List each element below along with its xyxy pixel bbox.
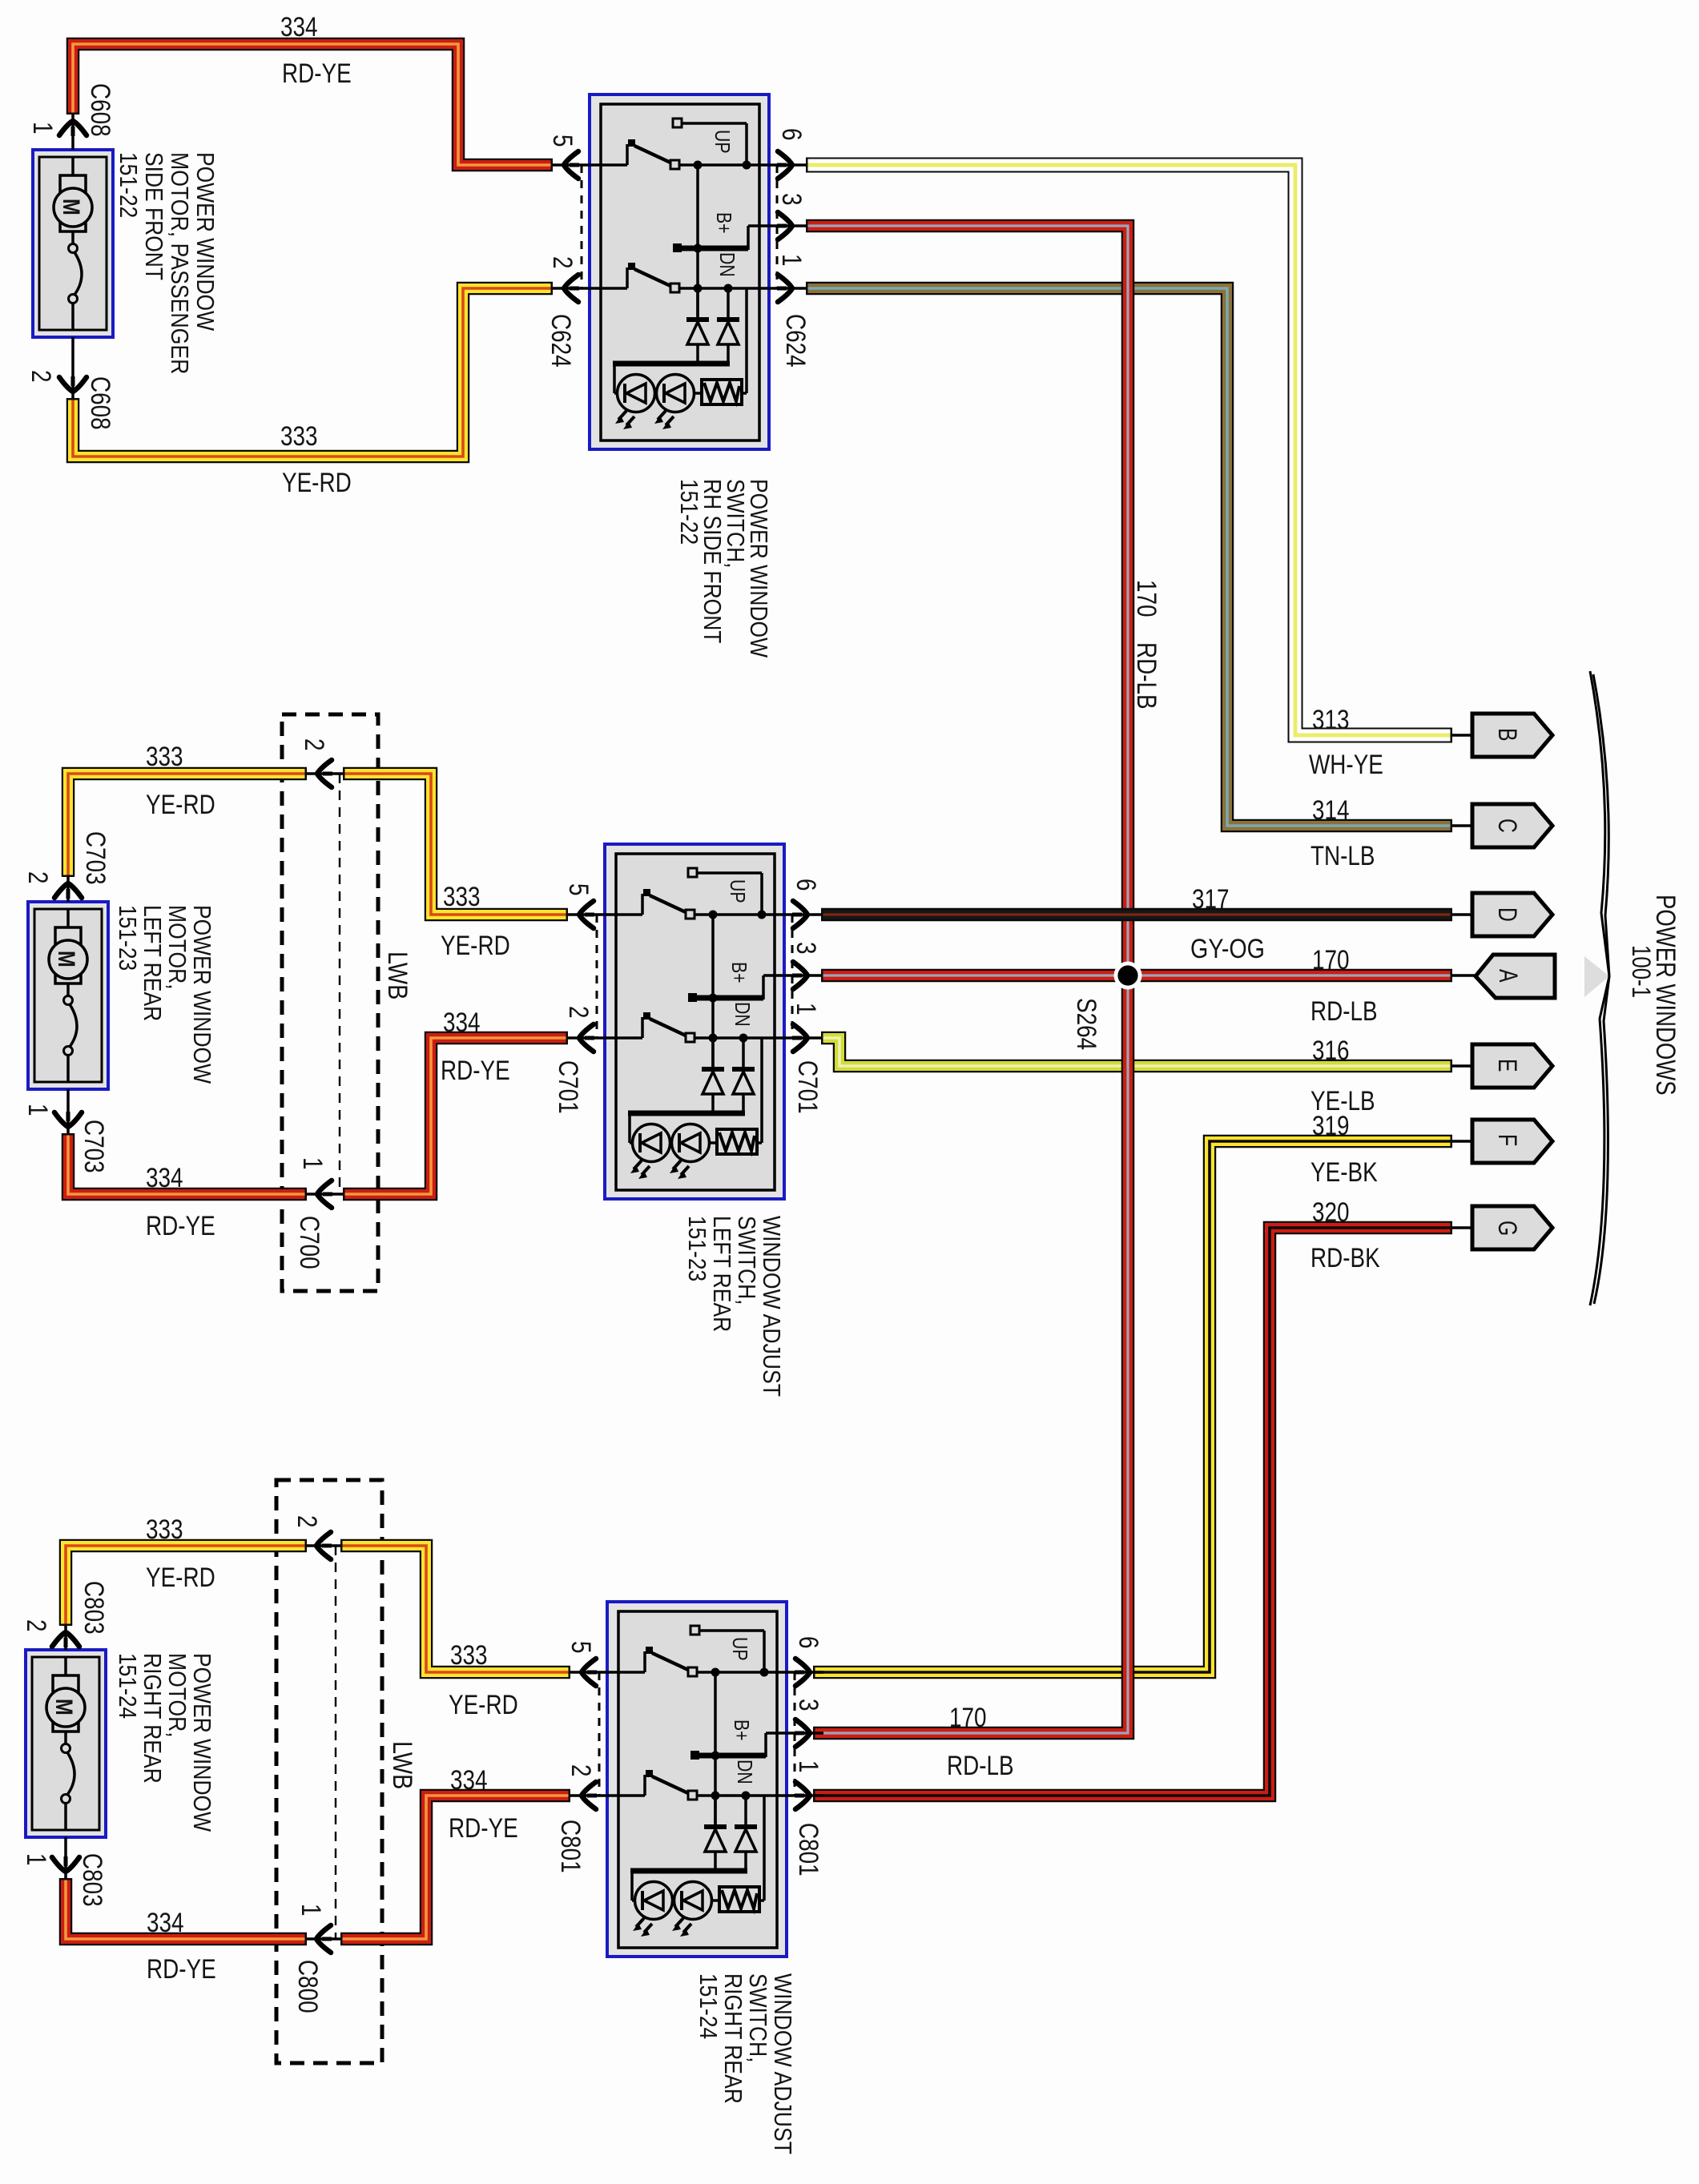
svg-text:YE-RD: YE-RD <box>449 1690 518 1720</box>
svg-text:C701: C701 <box>792 1060 823 1114</box>
svg-text:TN-LB: TN-LB <box>1310 841 1375 871</box>
svg-text:2: 2 <box>292 1515 322 1528</box>
svg-text:C: C <box>1493 818 1522 833</box>
svg-text:316: 316 <box>1312 1036 1350 1066</box>
svg-text:151-24: 151-24 <box>114 1653 142 1719</box>
svg-text:RD-LB: RD-LB <box>1310 996 1378 1027</box>
svg-text:334: 334 <box>450 1765 488 1796</box>
svg-text:SWITCH,: SWITCH, <box>744 1973 772 2063</box>
svg-text:5: 5 <box>563 883 594 896</box>
svg-text:6: 6 <box>791 879 821 891</box>
svg-text:1: 1 <box>791 1003 821 1016</box>
svg-text:RD-LB: RD-LB <box>947 1751 1014 1781</box>
svg-text:151-23: 151-23 <box>114 905 142 971</box>
svg-text:151-22: 151-22 <box>675 479 703 545</box>
svg-text:333: 333 <box>443 882 481 912</box>
svg-text:170: 170 <box>1131 580 1162 617</box>
svg-text:100-1: 100-1 <box>1627 945 1656 998</box>
svg-text:RIGHT REAR: RIGHT REAR <box>139 1653 167 1784</box>
svg-text:RD-YE: RD-YE <box>147 1954 216 1985</box>
svg-text:1: 1 <box>22 1104 53 1116</box>
svg-text:334: 334 <box>280 12 318 42</box>
svg-text:C624: C624 <box>780 314 811 368</box>
svg-text:WINDOW ADJUST: WINDOW ADJUST <box>758 1216 786 1397</box>
svg-text:2: 2 <box>566 1764 596 1777</box>
svg-text:333: 333 <box>280 421 318 452</box>
svg-text:C703: C703 <box>79 1120 109 1173</box>
svg-text:2: 2 <box>22 871 53 884</box>
svg-text:C703: C703 <box>80 831 111 885</box>
svg-text:C803: C803 <box>79 1581 109 1635</box>
svg-text:170: 170 <box>949 1703 987 1733</box>
svg-text:RD-BK: RD-BK <box>1310 1243 1380 1273</box>
svg-text:D: D <box>1493 907 1522 922</box>
svg-text:F: F <box>1493 1134 1522 1146</box>
svg-text:G: G <box>1493 1221 1522 1236</box>
svg-text:2: 2 <box>299 738 329 751</box>
svg-text:MOTOR, PASSENGER: MOTOR, PASSENGER <box>166 152 194 374</box>
svg-text:151-24: 151-24 <box>694 1973 723 2039</box>
svg-text:C700: C700 <box>294 1216 324 1269</box>
svg-text:6: 6 <box>793 1636 823 1649</box>
svg-text:1: 1 <box>296 1904 326 1917</box>
svg-text:5: 5 <box>547 135 578 147</box>
svg-text:333: 333 <box>146 1514 183 1545</box>
svg-text:C803: C803 <box>77 1853 107 1907</box>
svg-text:2: 2 <box>21 1619 51 1632</box>
svg-text:RIGHT REAR: RIGHT REAR <box>719 1973 747 2104</box>
svg-text:POWER WINDOW: POWER WINDOW <box>188 1653 216 1832</box>
svg-text:151-22: 151-22 <box>115 152 143 218</box>
svg-text:LWB: LWB <box>382 951 413 999</box>
svg-text:C801: C801 <box>793 1823 823 1876</box>
svg-text:1: 1 <box>27 122 58 135</box>
svg-text:A: A <box>1494 969 1523 983</box>
svg-text:2: 2 <box>26 370 56 383</box>
svg-text:170: 170 <box>1312 945 1350 975</box>
svg-text:S264: S264 <box>1071 998 1101 1050</box>
svg-text:POWER WINDOW: POWER WINDOW <box>191 152 219 332</box>
svg-text:GY-OG: GY-OG <box>1190 934 1265 964</box>
svg-text:RD-YE: RD-YE <box>441 1056 510 1086</box>
svg-text:RD-YE: RD-YE <box>449 1813 518 1844</box>
svg-text:314: 314 <box>1312 795 1350 826</box>
svg-text:E: E <box>1493 1059 1522 1072</box>
svg-text:334: 334 <box>147 1908 184 1938</box>
svg-text:RD-LB: RD-LB <box>1131 642 1162 710</box>
svg-text:313: 313 <box>1312 705 1350 735</box>
svg-text:6: 6 <box>776 128 807 141</box>
svg-text:YE-RD: YE-RD <box>146 790 215 820</box>
svg-text:YE-BK: YE-BK <box>1310 1157 1378 1188</box>
svg-text:5: 5 <box>566 1641 596 1654</box>
svg-text:3: 3 <box>793 1699 823 1711</box>
svg-text:SIDE FRONT: SIDE FRONT <box>140 152 168 280</box>
svg-text:C801: C801 <box>555 1820 586 1873</box>
svg-text:YE-RD: YE-RD <box>146 1563 215 1593</box>
svg-text:2: 2 <box>547 256 578 269</box>
svg-text:WH-YE: WH-YE <box>1309 750 1383 780</box>
svg-text:C800: C800 <box>292 1960 323 2013</box>
svg-text:3: 3 <box>791 942 821 955</box>
svg-text:C701: C701 <box>553 1060 583 1114</box>
svg-text:C624: C624 <box>546 314 576 368</box>
svg-text:RD-YE: RD-YE <box>282 58 352 89</box>
svg-text:B: B <box>1493 728 1522 742</box>
svg-text:POWER WINDOW: POWER WINDOW <box>188 905 216 1084</box>
svg-text:MOTOR,: MOTOR, <box>163 1653 191 1738</box>
svg-text:2: 2 <box>563 1006 594 1019</box>
svg-text:RD-YE: RD-YE <box>146 1211 215 1241</box>
svg-text:333: 333 <box>146 742 183 772</box>
svg-text:1: 1 <box>21 1853 51 1866</box>
svg-text:C608: C608 <box>85 83 115 137</box>
svg-text:317: 317 <box>1192 884 1230 915</box>
svg-text:151-23: 151-23 <box>683 1216 711 1281</box>
svg-text:319: 319 <box>1312 1111 1350 1141</box>
svg-text:3: 3 <box>776 193 807 206</box>
svg-text:C608: C608 <box>85 376 115 430</box>
svg-text:LEFT REAR: LEFT REAR <box>139 905 167 1021</box>
svg-text:MOTOR,: MOTOR, <box>163 905 191 990</box>
svg-text:LWB: LWB <box>387 1741 417 1789</box>
svg-text:320: 320 <box>1312 1197 1350 1228</box>
svg-text:334: 334 <box>443 1008 481 1038</box>
svg-text:1: 1 <box>776 254 807 267</box>
svg-text:SWITCH,: SWITCH, <box>733 1216 761 1305</box>
svg-text:334: 334 <box>146 1163 183 1193</box>
svg-text:YE-RD: YE-RD <box>441 931 510 961</box>
svg-text:WINDOW ADJUST: WINDOW ADJUST <box>769 1973 797 2154</box>
svg-text:LEFT REAR: LEFT REAR <box>708 1216 736 1332</box>
svg-text:1: 1 <box>793 1760 823 1773</box>
svg-text:1: 1 <box>297 1157 328 1170</box>
svg-text:YE-RD: YE-RD <box>282 468 352 498</box>
svg-text:333: 333 <box>450 1640 488 1671</box>
